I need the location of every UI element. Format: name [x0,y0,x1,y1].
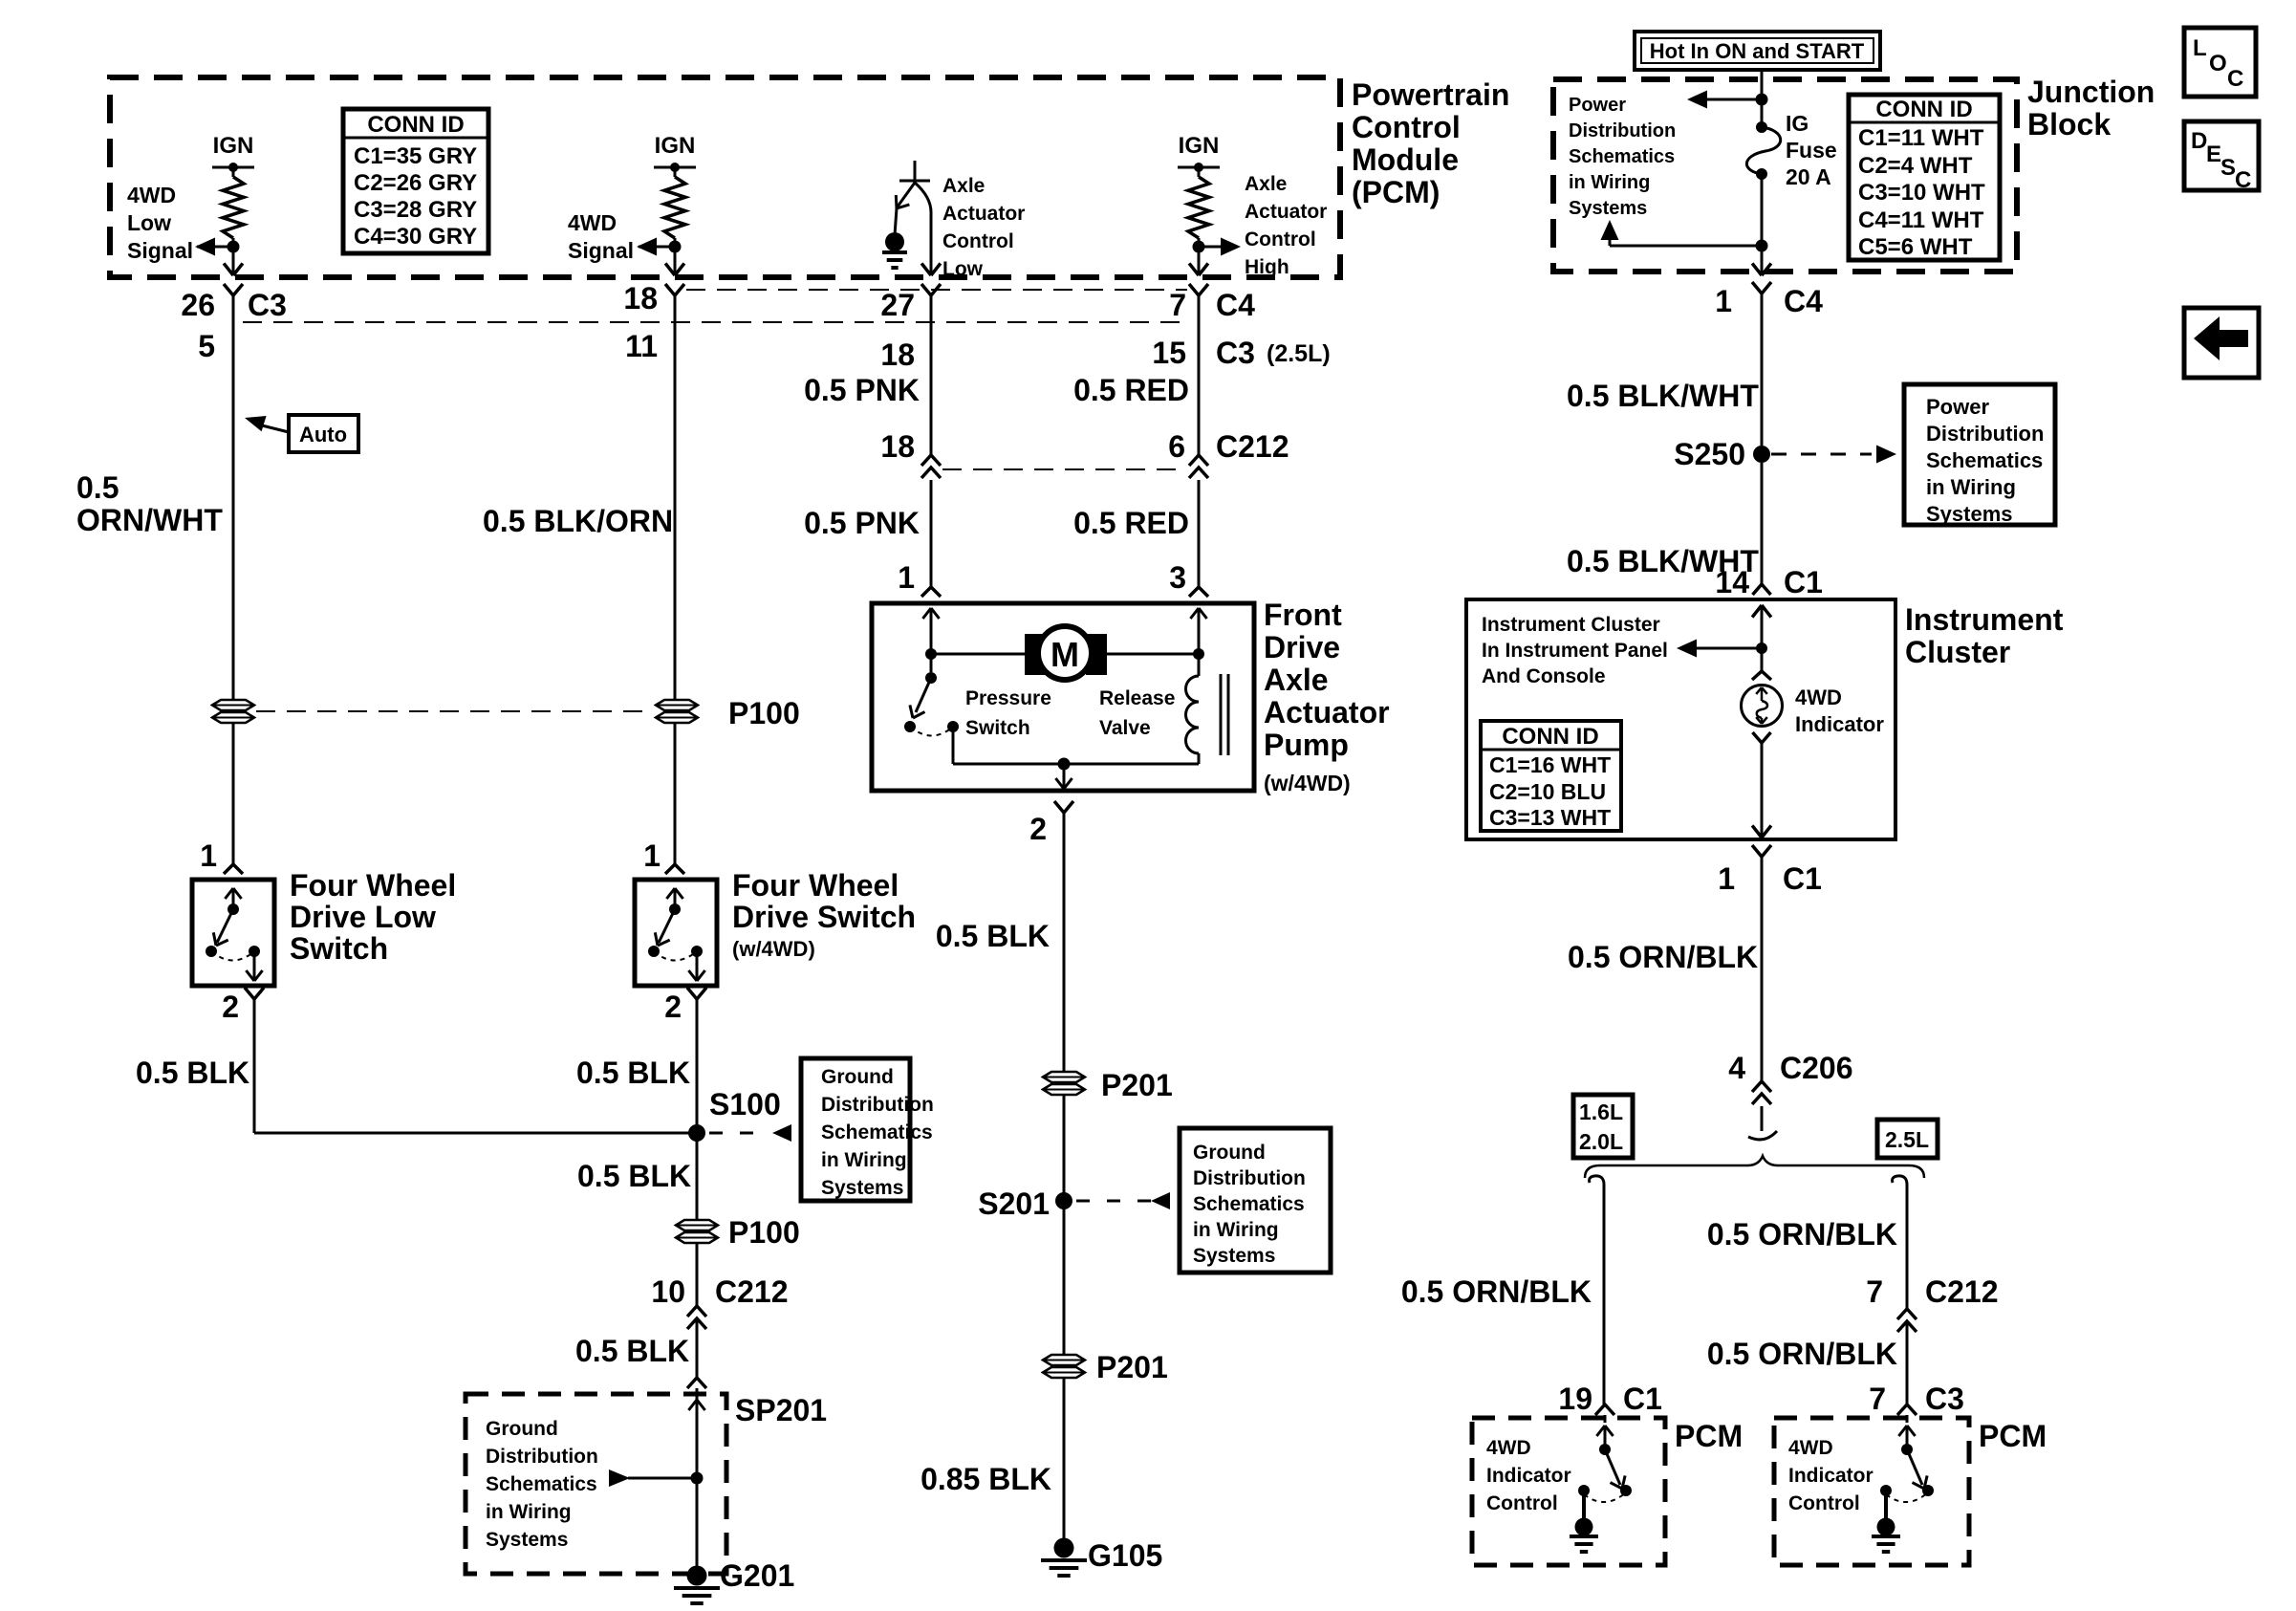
wire fuse to output [1761,174,1764,275]
svg-text:C2=10 BLU: C2=10 BLU [1489,779,1606,804]
label Instrument Cluster (title) [1905,602,2064,669]
svg-text:Instrument: Instrument [1905,602,2064,637]
wire col B C212 to SP201 [687,1318,706,1478]
label 4WD Indicator [1795,686,1884,736]
svg-text:Axle: Axle [1245,173,1287,195]
label 4WD Low Signal [127,183,193,263]
svg-text:Systems: Systems [1926,502,2013,526]
svg-text:in Wiring: in Wiring [1569,172,1650,193]
svg-text:Distribution: Distribution [486,1446,598,1468]
svg-text:7: 7 [1869,1382,1886,1416]
wire col A pin 26 exit arrow [224,247,243,275]
wire pump pin3 entry arrow [1190,608,1206,654]
svg-text:C3=10 WHT: C3=10 WHT [1858,180,1985,206]
wire col D C212 to pump pin 3 [1198,480,1201,587]
svg-text:5: 5 [198,329,215,363]
wire right branch to C212 [1906,1188,1909,1309]
svg-text:Junction: Junction [2027,75,2155,109]
svg-text:ORN/WHT: ORN/WHT [76,503,223,537]
PCM box (4WD Indicator Control right) [1774,1418,1969,1565]
callout box Power Distribution Schematics (S250) [1904,384,2055,526]
svg-text:C3=13 WHT: C3=13 WHT [1489,805,1611,830]
svg-text:C5=6 WHT: C5=6 WHT [1858,234,1973,260]
node IGN (col A) [212,133,254,172]
svg-text:in Wiring: in Wiring [1926,475,2016,499]
svg-text:Switch: Switch [965,717,1030,739]
node IGN (col D) [1178,133,1220,172]
svg-text:4: 4 [1728,1051,1745,1085]
motor M [1025,626,1107,680]
PCM module box (Powertrain Control Module) [110,77,1340,277]
svg-text:C1: C1 [1784,565,1823,599]
label PCM (left) [1675,1419,1743,1453]
svg-text:Control: Control [1245,229,1316,250]
svg-text:Schematics: Schematics [1569,146,1675,167]
label 0.5 ORN/BLK (left branch) [1401,1274,1592,1309]
svg-text:4WD: 4WD [1795,686,1842,709]
svg-text:0.5 BLK: 0.5 BLK [575,1334,689,1368]
svg-text:C: C [2235,167,2251,193]
svg-text:C4: C4 [1784,284,1823,318]
svg-text:C3: C3 [1925,1382,1964,1416]
node S250 splice [1674,437,1770,471]
node 4WD Low Signal with left arrow [195,238,240,256]
svg-text:Instrument Cluster: Instrument Cluster [1482,614,1660,636]
svg-text:Distribution: Distribution [1926,422,2044,446]
svg-text:Four Wheel: Four Wheel [290,868,456,903]
svg-text:Cluster: Cluster [1905,635,2010,669]
label 0.5 BLK (col A) [136,1056,249,1090]
svg-text:Actuator: Actuator [942,203,1025,225]
svg-text:E: E [2206,142,2221,167]
svg-text:1: 1 [1718,861,1735,896]
svg-text:0.5 BLK: 0.5 BLK [577,1159,691,1193]
svg-text:Ground: Ground [486,1418,558,1440]
svg-text:Signal: Signal [127,238,193,263]
svg-text:SP201: SP201 [735,1393,827,1427]
connector pin 2 (4WD low switch) [222,988,264,1024]
junction block box [1553,79,2017,272]
svg-text:Control: Control [1788,1492,1860,1514]
label 0.5 RED (upper) [1073,373,1189,407]
wire motor right lead [1107,648,1204,660]
svg-text:C206: C206 [1780,1051,1853,1085]
svg-text:Actuator: Actuator [1245,201,1327,223]
instrument cluster box [1466,599,1895,839]
svg-text:7: 7 [1169,288,1186,322]
svg-text:Schematics: Schematics [486,1473,597,1495]
svg-text:18: 18 [880,429,915,464]
label 0.85 BLK [921,1462,1051,1496]
wire C206 to break [1748,1106,1777,1140]
svg-text:1: 1 [200,838,217,873]
svg-text:Systems: Systems [1193,1245,1275,1267]
label P100 (upper) [728,696,800,730]
wire pump bottom bus [953,758,1199,771]
wire col C from cross down, pin 27 exit arrow [915,183,941,275]
wire col E P201 to G105 [1063,1378,1066,1539]
svg-text:C1=16 WHT: C1=16 WHT [1489,752,1611,777]
label 0.5 BLK (col B) [576,1056,690,1090]
label Ground Distribution Schematics (SP201) [486,1418,598,1551]
wire col B vertical [674,295,677,864]
svg-text:4WD: 4WD [127,183,176,207]
label Four Wheel Drive Low Switch [290,868,456,966]
connector 6 C212 (col D) [1168,429,1289,478]
engine tag 2.5L box [1877,1120,1938,1158]
label 0.5 ORN/BLK (col F) [1568,940,1758,974]
svg-text:Signal: Signal [568,238,634,263]
svg-text:2: 2 [1029,812,1047,846]
svg-text:11: 11 [625,329,658,363]
label Powertrain Control Module (PCM) [1352,77,1509,209]
wire col D pin 7 exit arrow [1189,247,1208,275]
svg-text:Control: Control [942,230,1014,252]
svg-text:C1: C1 [1783,861,1822,896]
connector 10 C212 (col B) [651,1274,788,1329]
svg-text:G201: G201 [720,1558,794,1593]
svg-text:Front: Front [1264,598,1342,632]
svg-text:Module: Module [1352,142,1459,177]
node S100 splice [688,1087,781,1142]
engine tag 1.6L 2.0L box [1573,1095,1633,1158]
svg-text:L: L [2193,35,2207,61]
svg-text:P201: P201 [1096,1350,1168,1384]
ground (Axle Actuator Control Low) [882,232,907,268]
svg-text:IG: IG [1786,111,1809,136]
svg-text:0.5 ORN/BLK: 0.5 ORN/BLK [1401,1274,1592,1309]
wire col B S100 to P100 [696,1133,699,1220]
wire dashed arrow S250 to power distribution box [1771,446,1896,464]
svg-text:1: 1 [1715,284,1732,318]
svg-text:0.5 PNK: 0.5 PNK [804,373,920,407]
svg-text:C212: C212 [1216,429,1289,464]
svg-text:P100: P100 [728,696,800,730]
svg-text:0.5 ORN/BLK: 0.5 ORN/BLK [1707,1217,1897,1252]
svg-text:Systems: Systems [821,1177,903,1199]
power tag Hot In ON and START [1635,32,1880,70]
wire pump pin1 entry arrow [922,608,939,654]
node Axle Actuator Control Low (cross symbol) [899,161,930,183]
svg-text:Drive Low: Drive Low [290,900,436,934]
svg-text:0.85 BLK: 0.85 BLK [921,1462,1051,1496]
svg-text:0.5 BLK/WHT: 0.5 BLK/WHT [1567,379,1759,413]
wire lamp to cluster exit arrow [1752,743,1771,838]
svg-text:Ground: Ground [821,1066,894,1088]
svg-text:C2=26 GRY: C2=26 GRY [354,170,477,196]
node Axle Actuator Control High with right arrow [1193,238,1242,256]
wire col E pump to P201 [1063,813,1066,1356]
svg-text:6: 6 [1168,429,1185,464]
connector pin 2 (pump) [1029,801,1073,846]
svg-text:PCM: PCM [1675,1419,1743,1453]
svg-text:Control: Control [1352,110,1461,144]
svg-text:C3=28 GRY: C3=28 GRY [354,197,477,223]
grommet P201 (lower) [1043,1350,1168,1384]
connector pin 18 (col B) [623,281,684,316]
svg-text:Schematics: Schematics [1926,448,2043,472]
resistor Axle Actuator Control High [1188,167,1209,247]
wire col C C212 to pump pin 1 [930,480,933,587]
connector pin 26 C3 (col A) [181,284,287,322]
svg-text:Pressure: Pressure [965,687,1051,709]
wire left branch vertical [1603,1188,1606,1404]
svg-text:4WD: 4WD [568,210,617,235]
connector pin 1 C1 (cluster output) [1718,845,1822,896]
svg-text:Four Wheel: Four Wheel [732,868,899,903]
ground G105 [1041,1538,1162,1577]
wire dashed arrow S100 to ground distribution box [709,1124,791,1142]
node S201 splice [978,1186,1072,1221]
svg-text:CONN ID: CONN ID [1502,724,1598,750]
wire motor left lead [925,648,1025,660]
pin 11 label (col B) [625,329,658,363]
svg-text:S201: S201 [978,1186,1050,1221]
svg-text:Systems: Systems [1569,198,1647,219]
svg-text:Power: Power [1569,95,1626,116]
svg-text:C2=4 WHT: C2=4 WHT [1858,153,1973,179]
svg-text:Power: Power [1926,395,1989,419]
label 0.5 BLK/ORN [483,504,673,538]
svg-text:0.5 ORN/BLK: 0.5 ORN/BLK [1568,940,1758,974]
grommet P100 (lower) [676,1215,800,1250]
wire pump pin2 exit arrow [1055,764,1072,789]
wire dashed arrow S201 to ground distribution box [1076,1192,1170,1209]
svg-text:Pump: Pump [1264,728,1349,762]
pin 18 label (col C) [880,337,915,372]
svg-text:in Wiring: in Wiring [821,1149,907,1171]
svg-text:in Wiring: in Wiring [1193,1219,1279,1241]
wire col C vertical (0.5 PNK) [930,295,933,455]
svg-text:15: 15 [1152,336,1186,370]
svg-text:26: 26 [181,288,215,322]
connector pin 1 (4WD switch) [643,838,684,874]
svg-text:(w/4WD): (w/4WD) [1264,771,1351,795]
label Front Drive Axle Actuator Pump (w/4WD) [1264,598,1390,795]
svg-text:Distribution: Distribution [1569,120,1676,142]
svg-text:Indicator: Indicator [1486,1465,1571,1487]
label Power Distribution Schematics (junction block) [1569,95,1676,219]
label 4WD Indicator Control (right) [1788,1437,1874,1514]
pin 15 C3 (2.5L) label (col D) [1152,336,1330,370]
svg-text:0.5 BLK: 0.5 BLK [576,1056,690,1090]
svg-text:2.0L: 2.0L [1579,1129,1623,1154]
label 0.5 PNK (upper) [804,373,920,407]
svg-text:Schematics: Schematics [821,1121,933,1143]
label Instrument Cluster In Instrument Panel And Console [1482,614,1668,687]
svg-text:1: 1 [643,838,661,873]
label 0.5 ORN/BLK (right branch upper) [1707,1217,1897,1252]
svg-text:CONN ID: CONN ID [1875,97,1972,122]
label 4WD Signal [568,210,634,263]
svg-text:Distribution: Distribution [1193,1167,1306,1189]
label Four Wheel Drive Switch (w/4WD) [732,868,916,961]
svg-text:2: 2 [664,990,682,1024]
svg-text:C3: C3 [1216,336,1255,370]
svg-text:S: S [2220,155,2236,181]
callout box Ground Distribution Schematics (S201) [1180,1128,1331,1273]
wire SP201 entry arrow [688,1400,704,1410]
CONN ID table (instrument cluster) [1481,721,1621,831]
connector pin 27 (col C) [880,284,941,322]
svg-text:IGN: IGN [655,133,696,159]
wire right branch C212 to PCM [1906,1321,1909,1404]
wire right branch hook [1893,1176,1907,1188]
svg-text:C1=11 WHT: C1=11 WHT [1858,125,1984,151]
svg-text:7: 7 [1866,1274,1883,1309]
wire feed from hot tag [1761,70,1764,127]
connector pin 1 (pump) [898,560,941,597]
svg-text:S250: S250 [1674,437,1745,471]
label 0.5 BLK/WHT (lower) [1567,544,1759,578]
connector pin 1 C4 (junction block) [1715,282,1823,318]
callout Auto [245,415,358,452]
wire col F C1 to C206 [1761,857,1764,1081]
resistor 4WD Signal pull-up [664,167,685,247]
svg-text:C4=11 WHT: C4=11 WHT [1858,207,1984,233]
splice pack SP201 box (Ground Distribution) [466,1393,827,1574]
svg-text:1: 1 [898,560,915,595]
wire left branch hook [1590,1176,1604,1188]
svg-text:S100: S100 [709,1087,781,1121]
label Junction Block [2027,75,2155,142]
svg-text:G105: G105 [1088,1538,1162,1573]
svg-text:20 A: 20 A [1786,164,1831,189]
label 0.5 ORN/WHT [76,470,223,537]
ground G201 [674,1558,794,1603]
label Axle Actuator Control High [1245,173,1327,278]
tag back-arrow box [2184,308,2259,378]
wire split brace [1585,1156,1924,1178]
tag DESC box [2184,121,2259,193]
wire col B to S100 [696,999,699,1133]
svg-text:(w/4WD): (w/4WD) [732,937,815,961]
wire diagonal to ground contact [895,183,915,235]
svg-text:P100: P100 [728,1215,800,1250]
node 4WD Signal with left arrow [637,238,682,256]
svg-text:Axle: Axle [942,175,985,197]
svg-text:Release: Release [1099,687,1175,709]
svg-text:0.5 RED: 0.5 RED [1073,373,1189,407]
svg-text:in Wiring: in Wiring [486,1501,572,1523]
label 0.5 BLK (col E) [936,919,1050,953]
CONN ID table (PCM) [343,109,488,253]
connector 7 C212 (right branch) [1866,1274,1998,1332]
svg-text:PCM: PCM [1979,1419,2047,1453]
svg-text:M: M [1051,635,1079,674]
svg-text:C212: C212 [1925,1274,1999,1309]
svg-text:C212: C212 [715,1274,789,1309]
switch Four Wheel Drive Switch [635,880,717,986]
node cluster junction with left arrow [1677,640,1767,658]
svg-text:C1: C1 [1623,1382,1662,1416]
svg-text:Hot In ON and START: Hot In ON and START [1650,39,1865,63]
connector pin 3 (pump) [1169,560,1208,597]
svg-text:Axle: Axle [1264,663,1329,697]
svg-text:Switch: Switch [290,931,388,966]
tag LOC box [2184,28,2256,97]
svg-text:18: 18 [623,281,658,316]
wire dashed C212 connector link [942,468,1187,470]
svg-text:P201: P201 [1101,1068,1173,1102]
pump box Front Drive Axle Actuator Pump [872,603,1254,791]
switch Four Wheel Drive Low Switch [192,880,274,986]
coil release valve [1186,654,1229,764]
svg-text:18: 18 [880,337,915,372]
switch pressure switch [904,654,959,764]
wire connector bus dashed (C3 row) [243,321,1187,323]
connector pin 7 C4 (col D) [1169,284,1255,322]
svg-text:High: High [1245,256,1289,278]
svg-text:0.5 PNK: 0.5 PNK [804,506,920,540]
connector pin 14 C1 (instrument cluster) [1715,565,1823,599]
resistor 4WD Low Signal pull-up [223,167,244,247]
svg-text:0.5 BLK: 0.5 BLK [936,919,1050,953]
node output junction with up arrow branch [1601,220,1768,252]
label 0.5 PNK (lower) [804,506,920,540]
svg-text:Indicator: Indicator [1788,1465,1874,1487]
svg-text:O: O [2209,51,2227,76]
svg-text:IGN: IGN [213,133,254,159]
svg-text:D: D [2191,128,2207,154]
svg-text:Fuse: Fuse [1786,138,1837,163]
svg-text:C4: C4 [1216,288,1255,322]
label Release Valve [1099,687,1175,739]
svg-text:27: 27 [880,288,915,322]
svg-text:10: 10 [651,1274,685,1309]
connector pin 2 (4WD switch) [664,988,706,1024]
svg-text:Low: Low [942,258,984,280]
label PCM (right) [1979,1419,2047,1453]
svg-text:C3: C3 [248,288,287,322]
label 0.5 ORN/BLK (right branch lower) [1707,1337,1897,1371]
wire connector bus dashed (C4 row) [686,289,1187,291]
label Axle Actuator Control Low [942,175,1025,280]
wire col F S250 to 14 C1 [1761,463,1764,584]
svg-text:(2.5L): (2.5L) [1267,340,1331,367]
svg-text:Systems: Systems [486,1529,568,1551]
svg-text:Block: Block [2027,107,2111,142]
grommet P100 (col A) [212,700,254,723]
lamp 4WD Indicator [1742,671,1783,743]
svg-text:And Console: And Console [1482,665,1606,687]
label IG Fuse 20 A [1786,111,1837,189]
label 0.5 BLK (col B lower) [575,1334,689,1368]
label 0.5 BLK (below S100) [577,1159,691,1193]
svg-text:4WD: 4WD [1788,1437,1833,1459]
connector pin 19 C1 (PCM left) [1558,1382,1662,1423]
label Pressure Switch [965,687,1051,739]
label 0.5 RED (lower) [1073,506,1189,540]
svg-text:Drive: Drive [1264,630,1340,664]
label 4WD Indicator Control (left) [1486,1437,1571,1514]
svg-text:Valve: Valve [1099,717,1151,739]
svg-text:3: 3 [1169,560,1186,595]
svg-text:0.5 ORN/BLK: 0.5 ORN/BLK [1707,1337,1897,1371]
grommet P100 (col B) [656,700,698,723]
connector pin 1 (4WD low switch) [200,838,243,874]
callout box Ground Distribution Schematics (S100) [801,1058,934,1201]
svg-text:Distribution: Distribution [821,1094,934,1116]
wire SP201 to G201 [696,1478,699,1568]
connector 4 C206 [1728,1051,1852,1104]
svg-text:IGN: IGN [1179,133,1220,159]
svg-text:In Instrument Panel: In Instrument Panel [1482,640,1668,662]
wire col D vertical (0.5 RED) [1198,295,1201,455]
svg-text:Indicator: Indicator [1795,712,1884,736]
wire col F C4 to S250 [1761,294,1764,446]
wire col B P100 to C212 [696,1243,699,1306]
